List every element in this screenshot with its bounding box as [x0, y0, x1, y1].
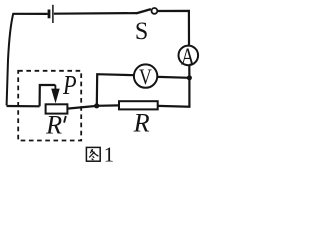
label 图 (drawn glyph) — [86, 147, 100, 161]
node junction dot right — [187, 75, 192, 80]
svg-text:1: 1 — [104, 143, 115, 167]
wire: top-left horizontal to battery — [13, 13, 47, 15]
wire: voltmeter left lead and riser down to rail junction — [97, 74, 134, 106]
wire: bottom-left rail to riser — [7, 105, 40, 108]
svg-text:A: A — [181, 45, 195, 71]
wire: voltmeter right lead — [158, 76, 190, 79]
svg-text:R: R — [133, 109, 150, 138]
node junction dot left — [94, 103, 99, 108]
wiper P arrowhead — [51, 89, 60, 104]
resistor R body — [119, 101, 158, 109]
wire: switch to top-right corner and down to ammeter — [158, 11, 190, 45]
battery B1 short thick plate (negative) — [48, 10, 51, 19]
svg-text:V: V — [139, 64, 152, 89]
svg-text:S: S — [135, 18, 148, 45]
wire: left vertical from top-left corner down — [7, 13, 14, 105]
wire: rail from rheostat right terminal to junction — [67, 106, 96, 109]
wire: junction to R left terminal — [97, 104, 119, 107]
wire: ammeter bottom to junction — [188, 65, 190, 78]
wire: riser up and step to wiper — [40, 85, 56, 106]
dashed enclosure box — [18, 71, 81, 141]
switch S contact circle — [152, 8, 158, 14]
battery B1 long thin plate (positive) — [52, 5, 54, 23]
label R' prime mark — [64, 116, 66, 123]
svg-text:R: R — [45, 111, 62, 140]
svg-text:P: P — [62, 70, 76, 100]
wire: battery to switch blade — [54, 12, 137, 15]
wiper P arrow stem — [54, 85, 56, 91]
wire: right vertical down to bottom-right corner then left to R — [158, 78, 190, 107]
ammeter A circle — [179, 46, 199, 66]
voltmeter V circle — [134, 64, 157, 87]
rheostat R' body — [46, 104, 68, 113]
switch S blade — [136, 9, 151, 13]
